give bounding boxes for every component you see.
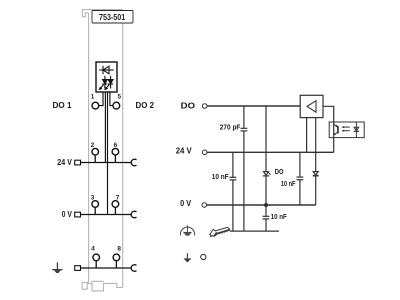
svg-text:0 V: 0 V bbox=[62, 209, 72, 219]
24V field supply line bbox=[81, 162, 132, 164]
svg-text:10 nF: 10 nF bbox=[212, 172, 229, 181]
wire from LED box to 0V line bbox=[107, 92, 109, 215]
functional earth symbol with arc bbox=[180, 225, 194, 235]
power jumper contact arc row 3 bbox=[131, 211, 136, 218]
earth collecting line bbox=[230, 230, 279, 232]
LED in optocoupler bbox=[354, 122, 359, 138]
driver lower pin wire bbox=[306, 118, 308, 153]
svg-text:4: 4 bbox=[91, 245, 95, 252]
module top edge and left latch hook bbox=[82, 10, 122, 17]
stem terminal 7 to 0V line bbox=[114, 207, 116, 214]
0V rail bbox=[207, 204, 316, 206]
svg-text:7: 7 bbox=[116, 194, 120, 201]
capacitor 270pF (DO to earth) bbox=[241, 106, 248, 231]
svg-text:753-501: 753-501 bbox=[99, 12, 125, 22]
earth plug square bbox=[75, 266, 81, 271]
driver triangle bbox=[307, 101, 316, 113]
terminal 6 bbox=[112, 148, 119, 155]
capacitor 10nF (24V to 0V) bbox=[297, 152, 304, 205]
module bottom DIN-rail foot bbox=[82, 282, 92, 289]
module foot middle tub bbox=[92, 281, 104, 291]
terminal 5 bbox=[113, 102, 120, 109]
junction node on 0V rail bbox=[264, 203, 268, 207]
svg-text:10 nF: 10 nF bbox=[281, 179, 296, 188]
terminal 4 bbox=[93, 254, 100, 261]
capacitor 10nF (0V to earth) bbox=[263, 205, 270, 231]
node circle 24V bbox=[202, 150, 207, 155]
legend node circle bbox=[201, 254, 206, 259]
stem terminal 4 to earth line bbox=[95, 261, 97, 268]
wire from LED box to terminal 5 bbox=[110, 92, 113, 106]
svg-text:24 V: 24 V bbox=[176, 145, 192, 155]
0V plug square bbox=[75, 212, 81, 217]
terminal 2 bbox=[92, 148, 99, 155]
earth terminal line bbox=[81, 267, 132, 269]
terminal 1 bbox=[92, 102, 99, 109]
wire driver output to 24V rail through optocoupler bbox=[323, 106, 334, 152]
svg-text:0 V: 0 V bbox=[180, 198, 191, 208]
module left edge bbox=[88, 13, 90, 283]
label box 753-501 bbox=[92, 11, 133, 24]
DIN rail contact arrow bbox=[210, 227, 230, 237]
svg-text:3: 3 bbox=[91, 194, 95, 201]
terminal 3 bbox=[92, 201, 99, 208]
optocoupler box bbox=[329, 122, 364, 138]
module right edge bbox=[122, 10, 124, 288]
wire from LED box to 24V line bbox=[104, 92, 106, 163]
svg-text:DO 2: DO 2 bbox=[136, 100, 155, 110]
DO rail bbox=[207, 105, 300, 107]
stem terminal 3 to 0V line bbox=[94, 207, 96, 214]
terminal 8 bbox=[113, 254, 120, 261]
svg-text:270 pF: 270 pF bbox=[220, 122, 241, 131]
power jumper contact arc row 2 bbox=[131, 159, 136, 166]
0V field supply line bbox=[81, 214, 132, 216]
24V plug square bbox=[75, 160, 81, 165]
svg-text:8: 8 bbox=[117, 245, 121, 252]
stem terminal 6 to 24V line bbox=[114, 155, 116, 163]
earth ground symbol left bbox=[52, 262, 62, 272]
wire from LED box to terminal 1 bbox=[99, 92, 103, 106]
suppressor diode inside LED box bbox=[99, 66, 114, 74]
svg-text:5: 5 bbox=[118, 94, 122, 101]
status LED 2 inside LED box bbox=[105, 76, 113, 90]
svg-text:DO: DO bbox=[275, 167, 284, 176]
status LED DO (DO to 0V) bbox=[263, 106, 271, 205]
svg-text:24 V: 24 V bbox=[57, 157, 72, 167]
svg-text:1: 1 bbox=[91, 94, 95, 101]
status LED 1 inside LED box bbox=[99, 76, 107, 90]
module body outline (753 series housing) bbox=[82, 10, 123, 291]
stem terminal 8 to earth line bbox=[115, 261, 117, 268]
phototransistor in optocoupler bbox=[334, 124, 338, 135]
svg-text:6: 6 bbox=[114, 142, 118, 149]
svg-text:10 nF: 10 nF bbox=[271, 212, 287, 221]
suppressor diode (24V to 0V) bbox=[313, 118, 319, 205]
legend ground symbol bbox=[184, 253, 191, 262]
24V rail bbox=[207, 151, 334, 153]
status LED box bbox=[96, 62, 117, 92]
svg-text:DO 1: DO 1 bbox=[53, 100, 72, 110]
stem terminal 2 to 24V line bbox=[94, 155, 96, 163]
power jumper contact arc row 4 bbox=[131, 265, 136, 272]
node circle 0V bbox=[202, 203, 207, 208]
node circle DO bbox=[202, 104, 207, 109]
op-amp driver box bbox=[300, 95, 323, 117]
capacitor 10nF (24V to earth) bbox=[230, 152, 237, 231]
light arrows in optocoupler bbox=[342, 126, 350, 132]
terminal 7 bbox=[112, 201, 119, 208]
svg-text:2: 2 bbox=[91, 142, 95, 149]
svg-text:DO: DO bbox=[181, 101, 196, 111]
module foot bottom step bbox=[92, 283, 123, 291]
